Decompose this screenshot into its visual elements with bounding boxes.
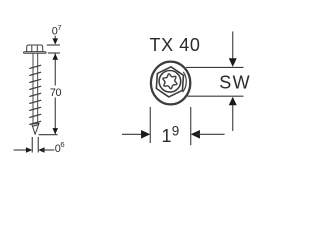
- svg-text:6: 6: [60, 140, 64, 149]
- svg-text:1: 1: [162, 126, 172, 146]
- svg-text:9: 9: [172, 123, 180, 138]
- hexagon: [156, 67, 183, 97]
- ext line head top: [47, 44, 60, 46]
- dim 0.6 ext lines: [31, 137, 33, 153]
- svg-text:TX 40: TX 40: [150, 35, 201, 55]
- screw flange: [24, 52, 47, 54]
- screw thread: [30, 65, 41, 68]
- torx socket: [163, 74, 177, 89]
- dim 0.7 arrow: [54, 36, 56, 40]
- ext line tip level: [39, 134, 58, 136]
- svg-text:7: 7: [57, 23, 61, 32]
- screw shaft core: [32, 53, 34, 125]
- SW dim lower: [232, 105, 234, 131]
- inner circle: [159, 71, 181, 93]
- sw ext line bottom: [188, 95, 244, 97]
- dim line 70: [54, 54, 56, 86]
- svg-text:70: 70: [50, 87, 62, 99]
- flange rim arc right: [183, 72, 187, 92]
- dim 1.9 arrows: [122, 133, 144, 135]
- head outer flange outline: [151, 62, 190, 105]
- dim 1.9 ext lines: [149, 107, 151, 143]
- svg-text:SW: SW: [219, 73, 251, 93]
- dim 0.6 arrows: [14, 149, 29, 151]
- screw hex head (side): [27, 45, 43, 52]
- SW dim upper: [232, 32, 234, 59]
- ext line flange bottom: [48, 52, 60, 54]
- screw tip: [32, 123, 39, 134]
- sw ext line top: [186, 66, 244, 68]
